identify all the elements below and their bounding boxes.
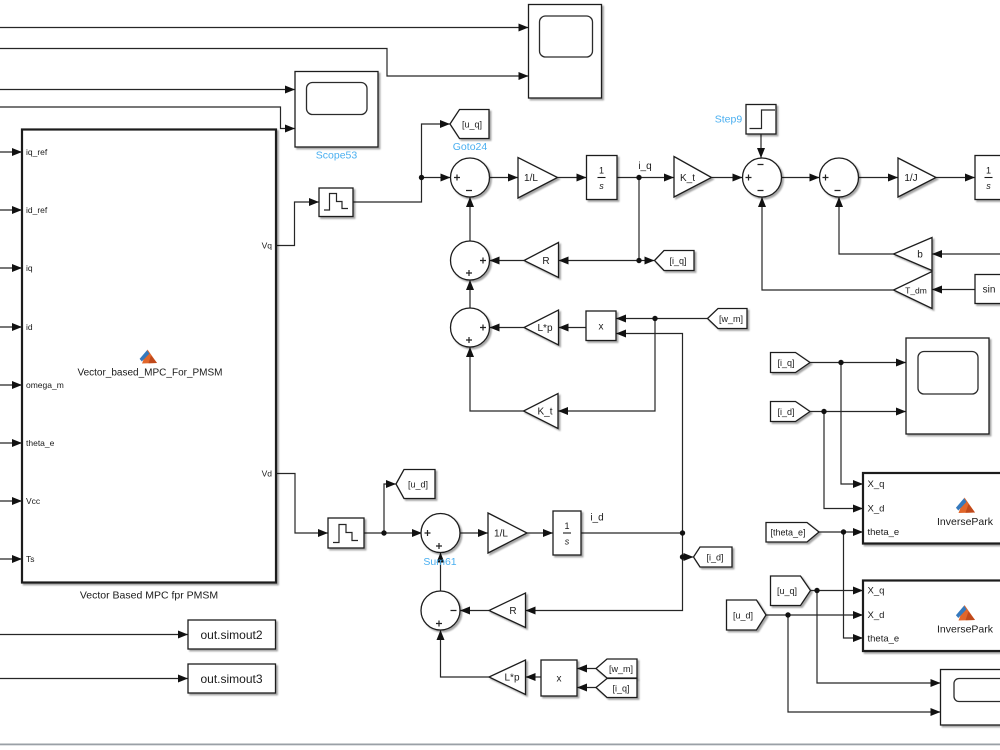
svg-text:theta_e: theta_e <box>868 634 900 645</box>
svg-text:1: 1 <box>986 166 991 176</box>
svg-text:s: s <box>565 537 570 547</box>
svg-text:[u_d]: [u_d] <box>408 480 428 490</box>
svg-text:Vector Based MPC fpr PMSM: Vector Based MPC fpr PMSM <box>80 590 218 602</box>
svg-text:[u_q]: [u_q] <box>462 120 482 130</box>
svg-text:X_q: X_q <box>868 586 885 597</box>
svg-text:[i_q]: [i_q] <box>669 256 686 266</box>
svg-text:[i_q]: [i_q] <box>612 684 629 694</box>
svg-text:[theta_e]: [theta_e] <box>770 528 805 538</box>
svg-text:id: id <box>26 322 33 332</box>
svg-text:K_t: K_t <box>680 173 695 184</box>
svg-text:s: s <box>986 181 991 191</box>
svg-text:sin: sin <box>983 285 996 296</box>
svg-text:id_ref: id_ref <box>26 205 48 215</box>
svg-text:1: 1 <box>599 166 604 176</box>
svg-text:s: s <box>599 181 604 191</box>
svg-text:Scope53: Scope53 <box>316 150 358 162</box>
svg-text:T_dm: T_dm <box>905 286 927 296</box>
svg-text:[w_m]: [w_m] <box>609 664 633 674</box>
svg-text:X_q: X_q <box>868 479 885 490</box>
svg-text:Sum61: Sum61 <box>423 556 456 568</box>
svg-text:L*p: L*p <box>504 673 519 684</box>
svg-text:InversePark: InversePark <box>937 516 994 528</box>
svg-text:[i_d]: [i_d] <box>777 407 794 417</box>
svg-text:Vq: Vq <box>262 241 273 251</box>
svg-text:1/J: 1/J <box>904 173 917 184</box>
svg-text:1/L: 1/L <box>494 529 508 540</box>
svg-text:R: R <box>542 256 549 267</box>
svg-text:L*p: L*p <box>537 323 552 334</box>
svg-text:theta_e: theta_e <box>868 527 900 538</box>
svg-text:Vector_based_MPC_For_PMSM: Vector_based_MPC_For_PMSM <box>77 368 222 379</box>
svg-text:[w_m]: [w_m] <box>719 314 743 324</box>
svg-text:[u_q]: [u_q] <box>777 586 797 596</box>
svg-text:omega_m: omega_m <box>26 380 64 390</box>
svg-text:x: x <box>557 674 562 685</box>
svg-text:iq_ref: iq_ref <box>26 147 48 157</box>
svg-text:i_d: i_d <box>590 513 603 524</box>
svg-text:Vd: Vd <box>262 469 273 479</box>
svg-text:X_d: X_d <box>868 504 885 515</box>
svg-text:theta_e: theta_e <box>26 438 55 448</box>
svg-text:X_d: X_d <box>868 610 885 621</box>
svg-text:iq: iq <box>26 263 33 273</box>
svg-text:Ts: Ts <box>26 554 35 564</box>
svg-text:out.simout2: out.simout2 <box>200 628 262 642</box>
svg-text:[u_d]: [u_d] <box>733 611 753 621</box>
svg-text:Goto24: Goto24 <box>453 141 488 153</box>
svg-text:Step9: Step9 <box>715 114 743 126</box>
svg-text:[i_d]: [i_d] <box>706 553 723 563</box>
svg-text:i_q: i_q <box>638 161 651 172</box>
svg-text:1/L: 1/L <box>524 173 538 184</box>
svg-text:Vcc: Vcc <box>26 496 41 506</box>
svg-text:R: R <box>509 606 516 617</box>
svg-text:K_t: K_t <box>537 407 552 418</box>
svg-text:[i_q]: [i_q] <box>777 358 794 368</box>
svg-text:b: b <box>917 250 923 261</box>
svg-text:x: x <box>599 322 604 333</box>
svg-text:out.simout3: out.simout3 <box>200 672 262 686</box>
svg-text:InversePark: InversePark <box>937 624 994 636</box>
svg-text:1: 1 <box>564 521 569 531</box>
